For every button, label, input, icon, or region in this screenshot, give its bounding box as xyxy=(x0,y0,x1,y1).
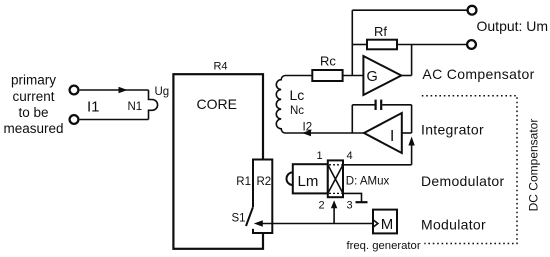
wire pin3 to ground xyxy=(343,193,362,201)
wire to output top xyxy=(352,9,467,11)
svg-text:S1: S1 xyxy=(232,213,246,225)
winding Lm box xyxy=(293,164,328,193)
svg-text:Integrator: Integrator xyxy=(421,122,484,138)
terminal output top xyxy=(468,6,477,15)
svg-text:to be: to be xyxy=(18,105,48,120)
svg-text:4: 4 xyxy=(346,150,352,162)
resistor R1/R2 box on core edge xyxy=(253,160,272,234)
op-amp I integrator xyxy=(364,113,402,153)
arrow I2 direction xyxy=(302,130,311,136)
AMux dashed lines xyxy=(329,164,342,166)
svg-text:current: current xyxy=(12,89,54,104)
wire I output xyxy=(402,132,412,134)
svg-text:Ug: Ug xyxy=(155,86,170,98)
wire Rf right to output bottom xyxy=(397,44,466,46)
winding N1 symbol xyxy=(149,90,158,120)
arrow up to integrator xyxy=(408,137,414,146)
svg-text:AC Compensator: AC Compensator xyxy=(422,66,534,82)
wire capacitor feedback left vertical xyxy=(351,105,353,133)
svg-text:3: 3 xyxy=(346,200,352,212)
wire modulator control xyxy=(261,223,373,225)
arrow I1 direction xyxy=(119,87,128,93)
wire primary top xyxy=(80,89,149,91)
svg-text:M: M xyxy=(381,216,394,233)
svg-text:R2: R2 xyxy=(257,176,272,188)
svg-text:primary: primary xyxy=(11,73,56,88)
winding Lm bump xyxy=(287,172,293,185)
svg-text:Lc: Lc xyxy=(290,87,305,103)
terminal output bottom xyxy=(467,40,476,49)
svg-text:freq. generator: freq. generator xyxy=(347,240,421,252)
wire Rf left xyxy=(352,44,367,46)
demodulator AMux box xyxy=(328,160,343,197)
svg-text:Modulator: Modulator xyxy=(421,217,486,233)
DC compensator dashed box xyxy=(422,96,517,244)
svg-text:Output: Um: Output: Um xyxy=(477,18,549,34)
arrow to switch S1 xyxy=(254,220,263,226)
svg-text:Rc: Rc xyxy=(320,54,336,69)
wire capacitor feedback right vertical xyxy=(411,105,413,133)
svg-text:CORE: CORE xyxy=(196,96,236,112)
svg-text:R1: R1 xyxy=(236,176,251,188)
svg-text:D: AMux: D: AMux xyxy=(346,176,390,188)
terminal primary bottom xyxy=(70,115,79,124)
node feedback vertical xyxy=(351,10,353,75)
svg-text:Rf: Rf xyxy=(374,24,387,39)
svg-text:Nc: Nc xyxy=(290,105,304,117)
clock symbol xyxy=(373,220,378,227)
svg-text:Lm: Lm xyxy=(298,173,319,190)
svg-text:measured: measured xyxy=(3,121,63,136)
switch S1 blade xyxy=(246,208,253,227)
wire capacitor left xyxy=(352,104,374,106)
wire pin 4 xyxy=(343,164,412,166)
wire primary bottom xyxy=(80,119,149,121)
svg-text:I1: I1 xyxy=(87,99,100,116)
svg-text:R4: R4 xyxy=(213,61,227,73)
svg-text:2: 2 xyxy=(318,200,324,212)
svg-text:N1: N1 xyxy=(128,101,143,113)
resistor Rf xyxy=(367,40,397,50)
terminal primary top xyxy=(70,86,79,95)
core box xyxy=(173,74,263,249)
svg-text:G: G xyxy=(367,69,378,85)
svg-text:Demodulator: Demodulator xyxy=(421,173,504,189)
wire Rc to G xyxy=(343,75,364,77)
svg-text:I: I xyxy=(390,128,394,145)
wire G output vertical xyxy=(411,45,413,76)
wire G output xyxy=(401,75,411,77)
AMux X cross xyxy=(328,165,343,194)
primary current text xyxy=(3,73,63,136)
inductor Lc compensation winding xyxy=(276,76,364,134)
modulator M box xyxy=(373,210,397,234)
svg-text:1: 1 xyxy=(316,150,322,162)
wire demodulator pin 4 vertical xyxy=(411,141,413,165)
capacitor C1 plates xyxy=(375,100,377,110)
svg-text:DC Compensator: DC Compensator xyxy=(526,119,540,212)
arrow into pin 2 xyxy=(331,200,337,208)
wire capacitor right xyxy=(382,104,411,106)
op-amp G xyxy=(363,56,401,95)
resistor Rc xyxy=(312,70,342,81)
ground xyxy=(356,201,368,203)
wire branch to pin 2 xyxy=(333,208,335,224)
